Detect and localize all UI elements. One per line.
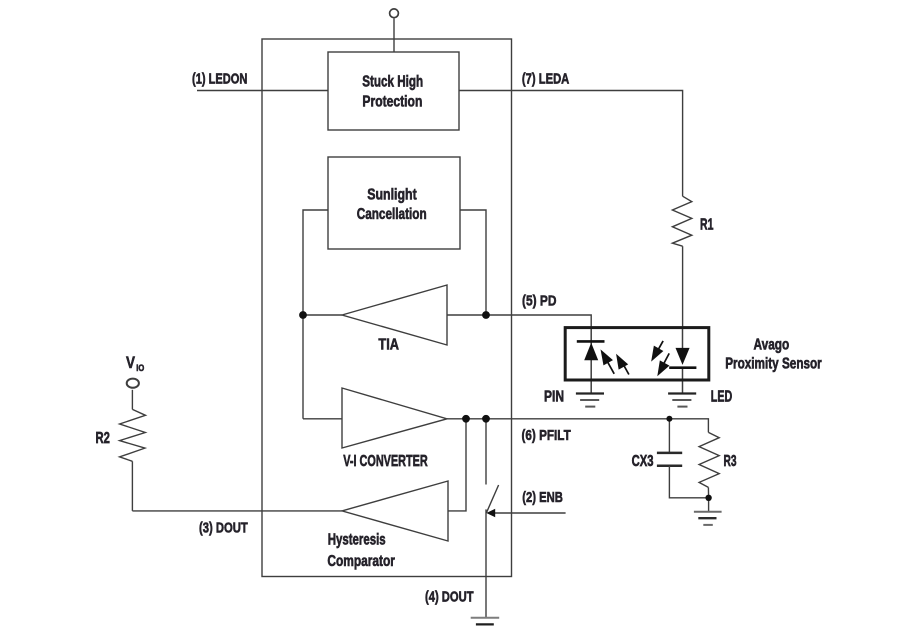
svg-text:Sunlight: Sunlight: [367, 186, 417, 204]
svg-text:(5) PD: (5) PD: [522, 292, 557, 309]
svg-text:R3: R3: [724, 452, 737, 470]
svg-text:(1) LEDON: (1) LEDON: [192, 70, 247, 87]
svg-text:IO: IO: [136, 362, 144, 373]
svg-text:Protection: Protection: [362, 92, 422, 110]
svg-text:(6) PFILT: (6) PFILT: [522, 427, 572, 444]
svg-text:R2: R2: [96, 429, 110, 446]
svg-text:V: V: [126, 354, 136, 373]
svg-text:(3) DOUT: (3) DOUT: [199, 519, 248, 536]
svg-text:Comparator: Comparator: [327, 551, 395, 569]
svg-text:R1: R1: [700, 215, 713, 233]
svg-text:LED: LED: [711, 387, 733, 405]
svg-text:PIN: PIN: [544, 387, 564, 405]
svg-text:(2) ENB: (2) ENB: [522, 488, 563, 505]
svg-text:CX3: CX3: [632, 452, 654, 469]
svg-text:Stuck High: Stuck High: [362, 72, 423, 90]
svg-text:Proximity Sensor: Proximity Sensor: [725, 354, 822, 372]
svg-text:Hysteresis: Hysteresis: [328, 531, 386, 548]
svg-text:Avago: Avago: [754, 335, 790, 353]
svg-text:Cancellation: Cancellation: [357, 204, 427, 222]
svg-text:V-I CONVERTER: V-I CONVERTER: [343, 452, 428, 469]
svg-text:(4) DOUT: (4) DOUT: [425, 588, 474, 605]
svg-text:(7) LEDA: (7) LEDA: [522, 70, 570, 87]
svg-text:TIA: TIA: [378, 336, 399, 354]
